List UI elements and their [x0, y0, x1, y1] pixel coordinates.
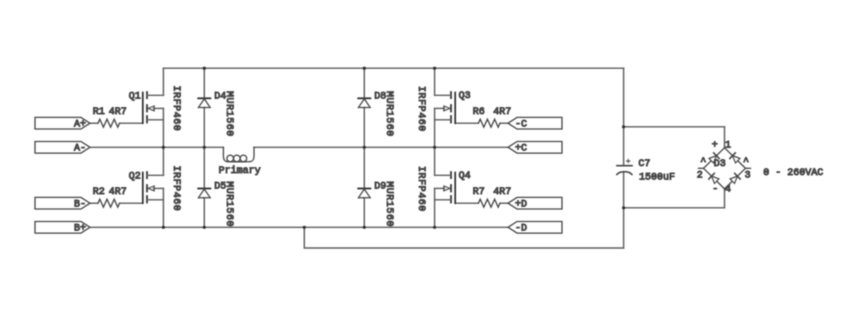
- svg-text:IRFP460: IRFP460: [170, 86, 181, 132]
- svg-text:4: 4: [725, 185, 731, 196]
- svg-text:Q1: Q1: [129, 91, 141, 102]
- wire primary net right segment: [254, 146, 508, 148]
- svg-text:+: +: [712, 141, 718, 152]
- node mid-D4D5: [203, 146, 206, 149]
- wire bridge bottom lead: [724, 189, 726, 208]
- svg-text:4R7: 4R7: [493, 107, 511, 118]
- wire Q1 drain rail: [162, 68, 164, 95]
- wire Q4 source rail: [434, 188, 436, 227]
- wire Q2 drain rail: [162, 147, 164, 175]
- wire top bus: [163, 67, 623, 69]
- svg-text:1500uF: 1500uF: [639, 173, 675, 184]
- wire D5 anode rail: [203, 198, 205, 228]
- wire B- gate lead: [90, 202, 98, 204]
- wire R6 to -C tag: [500, 122, 508, 124]
- wire D4 cathode rail: [203, 68, 205, 98]
- diode D8 MUR1560: [358, 97, 370, 99]
- node cap-top: [622, 125, 625, 128]
- wire A- / primary net left segment: [90, 146, 223, 148]
- svg-text:IRFP460: IRFP460: [415, 86, 426, 132]
- port +C: [508, 142, 562, 154]
- svg-text:-: -: [712, 185, 718, 196]
- svg-text:C7: C7: [638, 159, 650, 170]
- wire Q3 drain rail: [434, 68, 436, 95]
- wire main right vertical upper: [623, 68, 625, 165]
- wire A+ gate lead: [90, 122, 98, 124]
- svg-text:2: 2: [697, 171, 703, 182]
- wire Q3 gate to R6: [455, 122, 478, 124]
- svg-text:MUR1560: MUR1560: [223, 91, 234, 137]
- wire D4-D5 rail: [203, 108, 205, 189]
- svg-text:B-: B-: [74, 199, 86, 210]
- svg-text:IRFP460: IRFP460: [170, 166, 181, 212]
- wire B+ bottom bus: [90, 226, 508, 228]
- node top-D8: [363, 67, 366, 70]
- svg-text:-C: -C: [515, 119, 527, 130]
- port +D: [508, 197, 562, 209]
- svg-text:3: 3: [745, 171, 751, 182]
- transistor Q4 IRFP460: [454, 173, 456, 204]
- svg-text:R6: R6: [473, 107, 485, 118]
- resistor R1 4R7: [98, 119, 120, 127]
- node mid-Q3Q4: [433, 146, 436, 149]
- svg-text:1: 1: [725, 141, 731, 152]
- svg-text:+D: +D: [515, 199, 527, 210]
- port B+: [35, 222, 90, 234]
- wire Q3 source rail: [434, 108, 436, 147]
- resistor R2 4R7: [98, 199, 120, 207]
- node bot-D5: [203, 226, 206, 229]
- svg-text:Q2: Q2: [129, 171, 141, 182]
- resistor R7 4R7: [478, 199, 500, 207]
- svg-text:MUR1560: MUR1560: [383, 91, 394, 137]
- node bot-return: [303, 226, 306, 229]
- svg-text:^: ^: [700, 157, 706, 168]
- svg-text:4R7: 4R7: [109, 187, 127, 198]
- bridge rectifier D3: [704, 148, 725, 169]
- node bot-D9: [363, 226, 366, 229]
- port A-: [35, 142, 90, 154]
- wire D9 anode rail: [363, 198, 365, 228]
- node bot-Q2: [162, 226, 165, 229]
- wire bridge top lead: [724, 127, 726, 148]
- port B-: [35, 197, 90, 209]
- svg-text:MUR1560: MUR1560: [223, 181, 234, 227]
- wire Q4 drain rail: [434, 147, 436, 175]
- svg-text:D3: D3: [714, 159, 726, 170]
- svg-text:R2: R2: [93, 187, 105, 198]
- svg-text:A+: A+: [74, 119, 86, 130]
- svg-text:A-: A-: [74, 143, 86, 154]
- node cap-bottom: [622, 206, 625, 209]
- transistor Q3 IRFP460: [454, 93, 456, 124]
- wire R7 to +D tag: [500, 202, 508, 204]
- svg-text:+C: +C: [515, 143, 527, 154]
- diode D5 MUR1560: [198, 188, 210, 190]
- svg-text:Q4: Q4: [459, 171, 471, 182]
- resistor R6 4R7: [478, 119, 500, 127]
- node mid-D8D9: [363, 146, 366, 149]
- wire bottom return: [304, 227, 623, 248]
- svg-text:4R7: 4R7: [493, 187, 511, 198]
- wire Q2 source rail: [162, 188, 164, 227]
- wire main right vertical lower: [623, 173, 625, 248]
- svg-text:4R7: 4R7: [109, 107, 127, 118]
- svg-text:R7: R7: [473, 187, 485, 198]
- wire cap top link: [624, 126, 725, 128]
- node top-D4: [203, 67, 206, 70]
- capacitor C7 1500uF: [617, 165, 632, 167]
- svg-text:MUR1560: MUR1560: [383, 181, 394, 227]
- port A+: [35, 117, 90, 129]
- wire R1 to Q1 gate: [120, 122, 143, 124]
- wire Q1 source rail: [162, 108, 164, 147]
- wire Q4 gate to R7: [455, 202, 478, 204]
- svg-text:B+: B+: [74, 223, 86, 234]
- wire D8-D9 rail: [363, 108, 365, 189]
- svg-text:Q3: Q3: [459, 91, 471, 102]
- svg-text:0 - 260VAC: 0 - 260VAC: [763, 168, 823, 179]
- wire cap bottom link: [624, 207, 725, 209]
- wire D8 cathode rail: [363, 68, 365, 98]
- svg-text:IRFP460: IRFP460: [415, 166, 426, 212]
- node mid-Q1Q2: [162, 146, 165, 149]
- port -D: [508, 222, 562, 234]
- transistor Q2 IRFP460: [142, 173, 144, 204]
- inductor Primary winding: [223, 147, 227, 161]
- transistor Q1 IRFP460: [142, 93, 144, 124]
- wire R2 to Q2 gate: [120, 202, 143, 204]
- node top-Q3: [433, 67, 436, 70]
- port -C: [508, 117, 562, 129]
- svg-text:-D: -D: [515, 223, 527, 234]
- diode D4 MUR1560: [198, 97, 210, 99]
- diode D9 MUR1560: [358, 188, 370, 190]
- svg-text:^: ^: [743, 157, 749, 168]
- svg-text:R1: R1: [93, 107, 105, 118]
- node bot-Q4: [433, 226, 436, 229]
- svg-text:Primary: Primary: [219, 165, 261, 177]
